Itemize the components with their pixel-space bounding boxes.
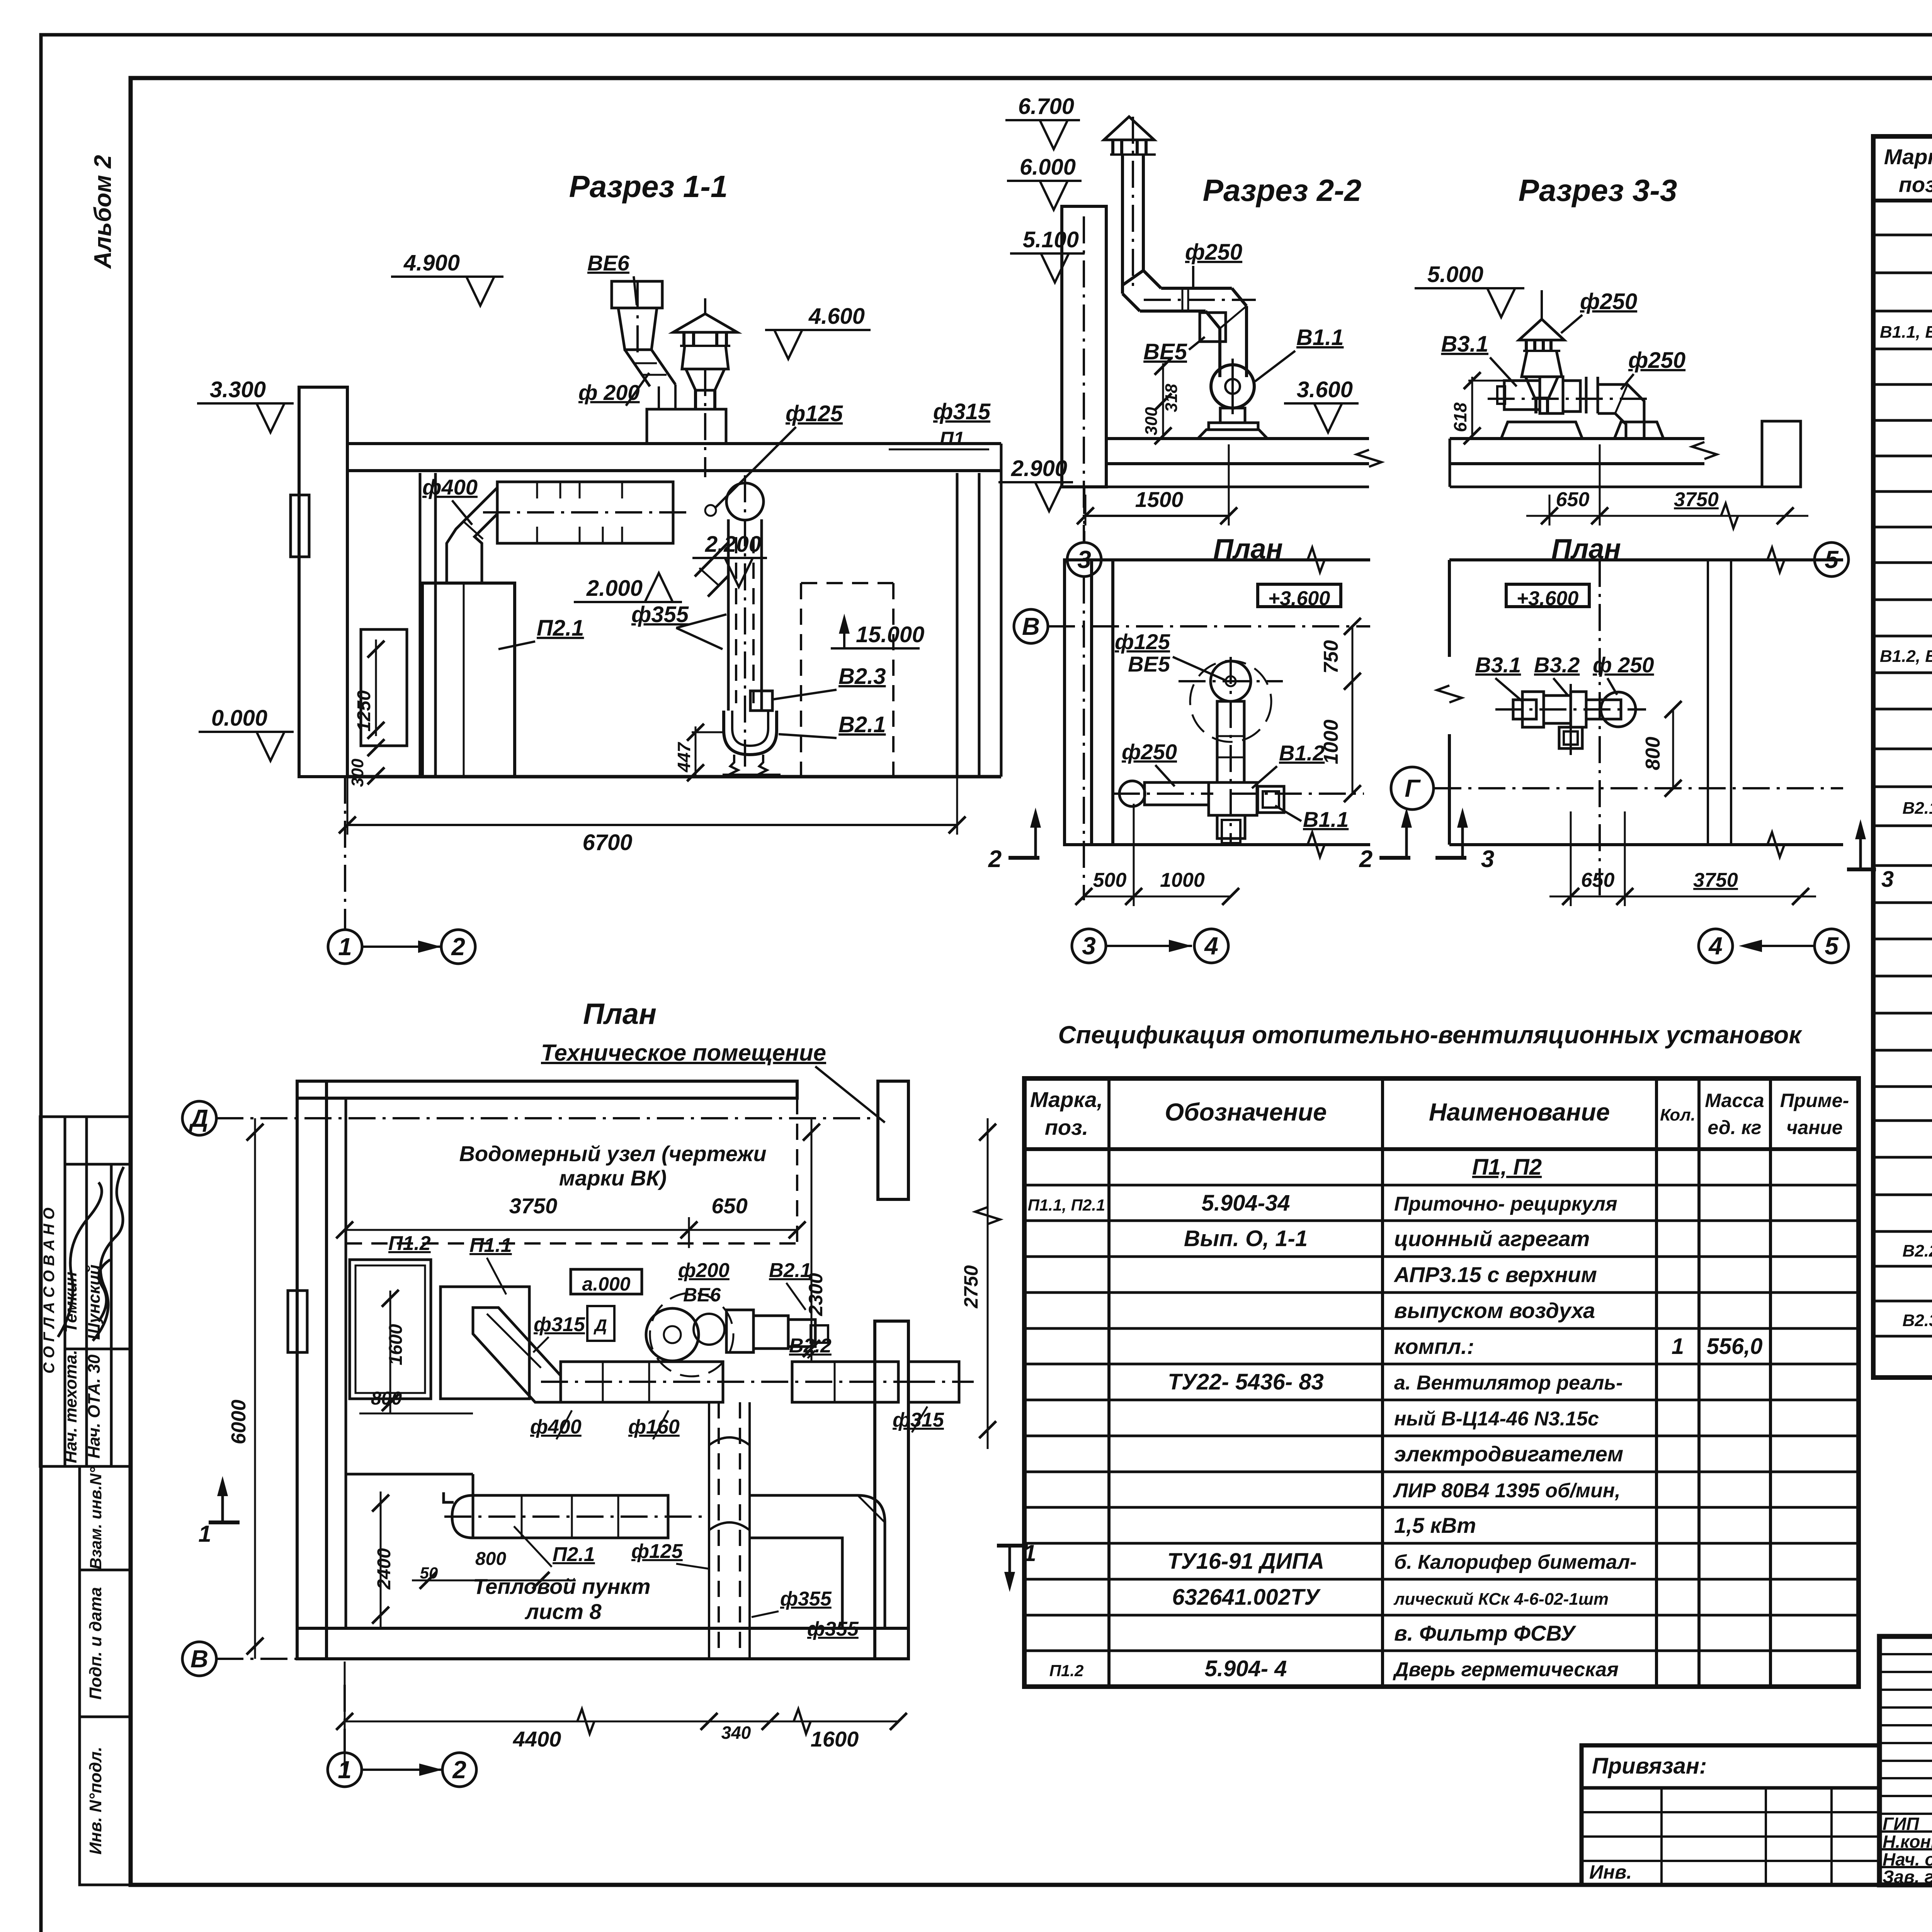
svg-text:В1.1: В1.1	[1303, 807, 1349, 832]
svg-text:В1.2, В3.2: В1.2, В3.2	[1880, 647, 1932, 666]
level box 0.000	[571, 1269, 642, 1295]
svg-text:1000: 1000	[1160, 869, 1205, 891]
svg-text:ф125: ф125	[786, 401, 843, 426]
label P2.1 s11	[498, 616, 584, 649]
floor slab 2-2	[1062, 439, 1381, 487]
label f125 s11	[705, 401, 843, 516]
svg-text:1: 1	[1672, 1334, 1684, 1359]
horizontal duct run	[541, 1362, 908, 1402]
big plan right wall top	[878, 1081, 908, 1199]
svg-text:Инв.: Инв.	[1589, 1861, 1632, 1883]
svg-text:Д: Д	[189, 1104, 208, 1132]
svg-text:Тепловой пункт: Тепловой пункт	[473, 1574, 650, 1599]
svg-text:В1.1: В1.1	[1296, 325, 1344, 350]
svg-text:1: 1	[198, 1521, 211, 1547]
big plan top wall	[297, 1081, 797, 1098]
axis circle 3 top	[1067, 487, 1101, 577]
axis B circle	[1014, 609, 1370, 643]
svg-text:750: 750	[1320, 640, 1342, 674]
svg-text:Разрез 2-2: Разрез 2-2	[1203, 173, 1362, 207]
floor slab 3-3	[1450, 421, 1801, 487]
B2 fan unit plan	[726, 1310, 828, 1352]
right table header text	[1884, 145, 1932, 197]
plan2 walls	[1065, 548, 1370, 900]
svg-text:В3.2: В3.2	[1534, 653, 1580, 677]
svg-text:Разрез 3-3: Разрез 3-3	[1519, 173, 1677, 207]
duct through right wall	[908, 1362, 974, 1402]
axis circle 5 top	[1815, 543, 1849, 577]
water meter dashed room	[346, 1098, 797, 1243]
dim 6700	[339, 777, 966, 855]
dim 1600 800	[359, 1290, 473, 1413]
svg-text:3: 3	[1881, 867, 1894, 892]
middle spec table grid	[1024, 1078, 1859, 1687]
svg-text:ТУ16-91 ДИПА: ТУ16-91 ДИПА	[1167, 1549, 1324, 1574]
label f250 s33b	[1621, 348, 1685, 389]
svg-text:Зав. гр.: Зав. гр.	[1883, 1867, 1932, 1887]
fan unit B1.1 section	[1198, 359, 1267, 439]
plan3 fan unit	[1495, 684, 1646, 757]
svg-text:ф250: ф250	[1185, 240, 1242, 265]
svg-text:50: 50	[420, 1564, 438, 1582]
label BE6	[587, 251, 637, 305]
stamp vzam inv	[80, 1466, 131, 1570]
label f250 s22	[1185, 240, 1242, 287]
svg-text:В1.2: В1.2	[1279, 741, 1325, 765]
supply unit box	[483, 482, 692, 543]
axis circles 1 2 s11	[328, 777, 475, 964]
svg-text:ф355: ф355	[807, 1618, 859, 1640]
plan2 axis circles 3 4	[1072, 929, 1228, 963]
labels f400 f160 f315right	[530, 1406, 944, 1439]
plan2 dim 750 1000	[1231, 618, 1364, 802]
svg-text:электродвигателем: электродвигателем	[1394, 1442, 1623, 1466]
BE6 fan plan	[646, 1293, 733, 1376]
plan2 bottom dims	[1075, 804, 1239, 906]
ceiling slab 1-1	[347, 444, 1001, 471]
dim 800 50 lower	[412, 1549, 576, 1589]
svg-text:лист 8: лист 8	[524, 1599, 602, 1624]
right wall 1-1	[957, 444, 1001, 777]
svg-text:15.000: 15.000	[856, 622, 924, 647]
svg-text:618: 618	[1450, 402, 1470, 432]
svg-text:1: 1	[338, 1756, 352, 1784]
svg-text:В2.1: В2.1	[838, 712, 886, 737]
svg-text:а. Вентилятор реаль-: а. Вентилятор реаль-	[1394, 1372, 1623, 1394]
label B2.3	[773, 664, 886, 699]
svg-text:Приточно- рециркуля: Приточно- рециркуля	[1394, 1193, 1617, 1215]
svg-text:Марка,: Марка,	[1884, 145, 1932, 169]
svg-text:П1, П2: П1, П2	[1472, 1155, 1542, 1180]
svg-text:В3.1: В3.1	[1475, 653, 1521, 677]
svg-text:ТУ22- 5436- 83: ТУ22- 5436- 83	[1168, 1369, 1324, 1395]
dim 2300	[803, 1118, 827, 1362]
svg-text:2: 2	[452, 1756, 466, 1784]
svg-text:В2.1: В2.1	[1903, 799, 1932, 818]
deflector duct s11	[673, 298, 737, 477]
svg-text:ед. кг: ед. кг	[1708, 1117, 1761, 1138]
svg-text:Н.контр.: Н.контр.	[1883, 1832, 1932, 1852]
privyazan table	[1582, 1745, 1879, 1885]
wall column 2-2	[1062, 206, 1106, 543]
approval stamp block	[40, 1117, 131, 1466]
approval signatures	[58, 1167, 124, 1341]
svg-text:Привязан:: Привязан:	[1592, 1753, 1707, 1779]
svg-text:3.600: 3.600	[1297, 377, 1353, 402]
svg-text:2: 2	[451, 933, 465, 961]
svg-text:П1.1, П2.1: П1.1, П2.1	[1028, 1196, 1105, 1214]
svg-text:поз.: поз.	[1899, 172, 1932, 197]
P2.1 cabinet	[422, 583, 515, 777]
svg-text:ф160: ф160	[628, 1416, 680, 1438]
svg-text:ВЕ6: ВЕ6	[587, 251, 630, 275]
svg-text:Г: Г	[1405, 774, 1421, 802]
dim 3750 650 top	[336, 1194, 806, 1248]
labels f355 plan	[752, 1588, 859, 1640]
big plan left wall	[288, 1081, 346, 1659]
svg-text:3750: 3750	[1693, 869, 1738, 891]
axis circles 1 2 bottom	[328, 1685, 476, 1787]
axis D	[182, 1101, 878, 1135]
svg-text:ф250: ф250	[1122, 740, 1177, 764]
svg-text:П2.1: П2.1	[553, 1543, 595, 1566]
elbow duct right lower	[750, 1495, 885, 1628]
svg-text:ГИП: ГИП	[1883, 1814, 1919, 1834]
svg-text:П1.2: П1.2	[388, 1232, 431, 1255]
svg-text:1: 1	[338, 933, 352, 961]
svg-text:4: 4	[1708, 932, 1723, 960]
svg-text:4.600: 4.600	[808, 304, 865, 329]
vertical duct B2 plan	[709, 1402, 750, 1659]
svg-text:поз.: поз.	[1045, 1115, 1088, 1139]
svg-text:447: 447	[674, 742, 694, 772]
svg-text:3: 3	[1481, 846, 1494, 872]
svg-text:марки ВК): марки ВК)	[559, 1166, 667, 1190]
svg-text:Подп. и дата: Подп. и дата	[86, 1587, 105, 1699]
deflector chimney 3-3	[1519, 290, 1564, 413]
svg-text:Наименование: Наименование	[1429, 1098, 1610, 1126]
svg-text:П1: П1	[940, 428, 964, 449]
svg-text:В2.3: В2.3	[838, 664, 886, 689]
big plan bottom wall	[297, 1628, 908, 1659]
label B1.1	[1255, 325, 1344, 381]
svg-text:2.000: 2.000	[586, 576, 643, 601]
svg-text:ф250: ф250	[1580, 289, 1637, 314]
middle table header text	[1030, 1087, 1849, 1139]
approval stamp texts	[41, 1207, 104, 1463]
svg-text:5.904- 4: 5.904- 4	[1205, 1656, 1287, 1681]
svg-text:компл.:: компл.:	[1394, 1334, 1474, 1359]
svg-text:Спецификация отопительно-вент: Спецификация отопительно-вентиляционных …	[1058, 1021, 1803, 1049]
plan3 outline	[1437, 548, 1843, 900]
dims 650 3750 s33	[1526, 444, 1808, 528]
svg-text:ф400: ф400	[422, 475, 478, 499]
roof curb box	[647, 409, 726, 444]
P1 unit plan	[350, 1260, 529, 1399]
svg-text:2.900: 2.900	[1011, 456, 1067, 481]
svg-text:П2.1: П2.1	[537, 616, 584, 641]
label f315 P1	[889, 399, 991, 449]
svg-text:В2.2: В2.2	[789, 1335, 832, 1357]
dim 1500	[1077, 444, 1237, 526]
svg-text:2: 2	[988, 846, 1002, 872]
svg-text:П1.2: П1.2	[1049, 1662, 1084, 1680]
svg-text:в. Фильтр ФСВУ: в. Фильтр ФСВУ	[1394, 1621, 1577, 1645]
label f125 plan	[631, 1540, 709, 1569]
exhaust chimney 2-2	[1104, 117, 1256, 377]
plan2 fan BE5	[1179, 661, 1283, 742]
svg-text:2400: 2400	[374, 1548, 395, 1590]
left wall 1-1	[291, 387, 347, 777]
svg-text:5: 5	[1825, 932, 1839, 960]
diagonal duct f315	[473, 1308, 585, 1402]
svg-text:2: 2	[1359, 846, 1372, 872]
svg-text:1000: 1000	[1320, 719, 1342, 764]
svg-text:В: В	[190, 1645, 208, 1673]
section mark 3 right	[1847, 819, 1894, 892]
svg-text:В2.1: В2.1	[769, 1259, 811, 1282]
svg-text:ВЕ5: ВЕ5	[1128, 652, 1170, 676]
svg-text:556,0: 556,0	[1706, 1334, 1762, 1359]
svg-text:1500: 1500	[1135, 487, 1184, 512]
plan2 level box	[1258, 584, 1341, 610]
dim 2400	[372, 1492, 395, 1628]
svg-text:ф125: ф125	[1115, 629, 1170, 654]
title block staff rows	[1883, 1814, 1932, 1887]
svg-text:4: 4	[1204, 932, 1218, 960]
svg-text:ф315: ф315	[933, 399, 991, 424]
svg-text:Марка,: Марка,	[1030, 1087, 1103, 1112]
svg-text:ф400: ф400	[530, 1416, 582, 1438]
fan unit 3-3	[1488, 377, 1654, 439]
svg-text:б. Калорифер биметал-: б. Калорифер биметал-	[1394, 1551, 1637, 1573]
dim 618	[1450, 372, 1507, 444]
svg-text:ВЕ5: ВЕ5	[1143, 339, 1187, 364]
label f355 mid	[631, 602, 726, 649]
label B3.1 s33	[1441, 332, 1517, 386]
section mark 1 right	[997, 1540, 1036, 1592]
heat point partition	[346, 1474, 473, 1495]
dim 300 318	[1142, 358, 1181, 444]
svg-text:6000: 6000	[228, 1400, 250, 1444]
svg-text:5.904-34: 5.904-34	[1202, 1190, 1290, 1216]
plan3 axis circles 4 5	[1699, 929, 1849, 963]
svg-text:6.700: 6.700	[1018, 94, 1074, 119]
svg-text:300: 300	[348, 759, 367, 787]
svg-text:Разрез 1-1: Разрез 1-1	[569, 169, 728, 204]
svg-text:+3.600: +3.600	[1268, 587, 1330, 610]
bottom dims 4400 340 1600	[336, 1662, 907, 1777]
small box A	[587, 1306, 614, 1341]
duct elbow to P2.1	[447, 488, 497, 583]
svg-text:800: 800	[475, 1549, 506, 1569]
label B2.2	[789, 1335, 832, 1358]
stamp podp i data	[80, 1570, 131, 1717]
heater box BE5	[1143, 313, 1226, 364]
section marks 2 3 plan3	[1379, 856, 1410, 860]
svg-text:Обозначение: Обозначение	[1165, 1098, 1327, 1126]
svg-text:ный В-Ц14-46 N3.15с: ный В-Ц14-46 N3.15с	[1394, 1408, 1599, 1430]
label B2.1	[779, 712, 886, 738]
label P2.1 plan	[514, 1526, 595, 1567]
plan2 labels	[1115, 629, 1349, 832]
svg-text:а.000: а.000	[582, 1273, 630, 1295]
floor line 1-1	[347, 775, 1001, 779]
right table rows text	[1880, 205, 1932, 1369]
labels P12 P11	[388, 1232, 512, 1294]
BE6 hood duct	[612, 281, 675, 409]
section mark 1 left	[198, 1476, 240, 1547]
svg-text:2750: 2750	[960, 1265, 982, 1308]
plan2 horiz duct f250	[1113, 781, 1213, 806]
svg-text:ф250: ф250	[1628, 348, 1685, 373]
room label tech	[541, 1040, 885, 1122]
svg-text:Кол.: Кол.	[1660, 1105, 1696, 1124]
corner symbol	[444, 1492, 454, 1502]
svg-text:318: 318	[1162, 384, 1181, 412]
right spec table grid	[1873, 136, 1932, 1378]
svg-text:632641.002ТУ: 632641.002ТУ	[1172, 1585, 1321, 1610]
svg-text:6.000: 6.000	[1020, 155, 1076, 180]
svg-text:3: 3	[1082, 932, 1096, 960]
svg-text:650: 650	[1581, 869, 1615, 891]
svg-text:0.000: 0.000	[211, 706, 267, 731]
svg-text:выпуском воздуха: выпуском воздуха	[1394, 1298, 1595, 1323]
svg-text:3.300: 3.300	[210, 377, 266, 402]
svg-text:ЛИР 80В4 1395 об/мин,: ЛИР 80В4 1395 об/мин,	[1393, 1480, 1621, 1502]
svg-text:ф355: ф355	[780, 1588, 832, 1610]
area 15.000	[801, 583, 924, 777]
svg-text:Вып. О, 1-1: Вып. О, 1-1	[1184, 1226, 1308, 1251]
svg-text:лический КСк 4-6-02-1шт: лический КСк 4-6-02-1шт	[1393, 1590, 1609, 1609]
svg-text:ционный агрегат: ционный агрегат	[1394, 1226, 1590, 1251]
label heat point	[473, 1574, 650, 1624]
svg-text:Взам. инв.N°: Взам. инв.N°	[87, 1466, 105, 1569]
svg-text:В2.3: В2.3	[1903, 1311, 1932, 1330]
svg-text:В1.1, В3.1: В1.1, В3.1	[1880, 323, 1932, 342]
lower duct run P2	[444, 1495, 709, 1538]
central vertical duct	[695, 475, 764, 769]
svg-text:+3.600: +3.600	[1517, 587, 1579, 610]
plan3 bottom dims	[1549, 811, 1816, 906]
dim 6000	[228, 1118, 264, 1659]
svg-text:1600: 1600	[811, 1727, 859, 1751]
plan2 vertical duct	[1217, 657, 1244, 846]
inner wall left	[420, 473, 435, 777]
svg-text:Нач. техота.: Нач. техота.	[61, 1350, 80, 1463]
label f400 s11	[422, 475, 478, 525]
svg-text:Альбом 2: Альбом 2	[90, 155, 116, 269]
svg-text:340: 340	[721, 1723, 751, 1743]
svg-text:3750: 3750	[1674, 488, 1719, 511]
svg-text:1600: 1600	[386, 1324, 406, 1365]
axis G circle	[1391, 767, 1843, 810]
axis V	[182, 1642, 908, 1676]
fan B2.1 bottom	[723, 691, 781, 777]
big plan right wall bottom	[875, 1321, 908, 1659]
svg-text:В: В	[1022, 612, 1040, 640]
svg-text:Масса: Масса	[1705, 1090, 1764, 1111]
dim 300	[348, 739, 384, 787]
svg-text:План: План	[583, 998, 656, 1031]
svg-text:650: 650	[1556, 488, 1590, 511]
svg-text:ф 250: ф 250	[1593, 653, 1654, 677]
svg-text:1250: 1250	[354, 690, 374, 731]
svg-text:Нач. ОТА. 30: Нач. ОТА. 30	[85, 1354, 104, 1459]
svg-text:В3.1: В3.1	[1441, 332, 1488, 357]
svg-text:Водомерный узел (чертежи: Водомерный узел (чертежи	[459, 1141, 766, 1166]
plan2 fan unit B1.2 B1.1	[1209, 782, 1284, 843]
label f200 s11	[578, 373, 649, 406]
svg-text:ф315: ф315	[534, 1313, 585, 1336]
svg-text:500: 500	[1093, 869, 1127, 891]
svg-text:5.100: 5.100	[1023, 227, 1079, 252]
svg-text:Д: Д	[593, 1316, 607, 1335]
svg-text:чание: чание	[1786, 1117, 1843, 1138]
svg-text:Техническое помещение: Техническое помещение	[541, 1040, 826, 1066]
svg-text:Инв. N°подл.: Инв. N°подл.	[86, 1747, 105, 1854]
svg-text:ф125: ф125	[631, 1540, 683, 1563]
title block grid	[1879, 1636, 1932, 1885]
pedestals 3-3	[1501, 422, 1663, 439]
section mark 2 bottom	[1009, 856, 1039, 860]
svg-text:С О Г Л А С О В А Н О: С О Г Л А С О В А Н О	[41, 1207, 58, 1374]
svg-text:4400: 4400	[513, 1727, 561, 1751]
svg-text:АПР3.15 с верхним: АПР3.15 с верхним	[1393, 1262, 1597, 1287]
svg-text:1: 1	[1023, 1540, 1036, 1566]
svg-text:300: 300	[1142, 407, 1161, 435]
svg-text:1,5 кВт: 1,5 кВт	[1394, 1513, 1476, 1537]
svg-text:ф355: ф355	[631, 602, 689, 627]
middle table rows text	[1028, 1155, 1763, 1681]
labels f200 BE6 B2.1	[678, 1259, 811, 1310]
svg-text:П1.1: П1.1	[469, 1234, 512, 1257]
svg-text:3750: 3750	[509, 1194, 558, 1218]
stamp inv n podl	[80, 1717, 131, 1885]
niche 1250	[354, 629, 407, 746]
svg-text:Дверь герметическая: Дверь герметическая	[1393, 1658, 1619, 1681]
svg-text:В2.2: В2.2	[1903, 1242, 1932, 1260]
plan3 level box	[1506, 584, 1589, 610]
plan3 dim 800	[1642, 701, 1682, 797]
label f250 s33a	[1561, 289, 1637, 333]
svg-text:800: 800	[1642, 737, 1664, 770]
svg-text:5.000: 5.000	[1427, 262, 1483, 287]
dim 447	[674, 724, 723, 781]
svg-text:ф200: ф200	[678, 1259, 730, 1282]
svg-text:Приме-: Приме-	[1780, 1090, 1849, 1111]
plan3 labels	[1475, 653, 1654, 701]
svg-text:6700: 6700	[582, 830, 632, 855]
svg-text:650: 650	[711, 1194, 747, 1218]
dim 2750	[960, 1118, 1000, 1449]
svg-text:4.900: 4.900	[403, 250, 460, 276]
